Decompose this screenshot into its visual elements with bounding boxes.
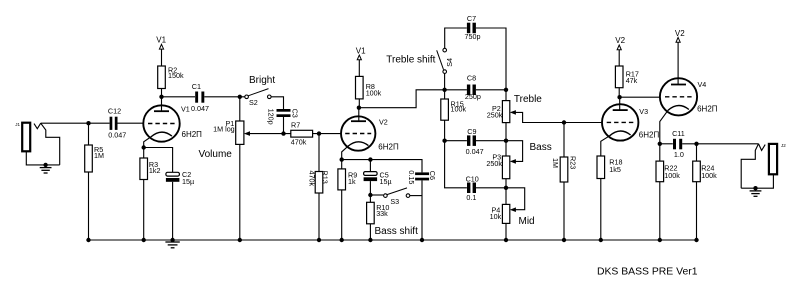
svg-text:V4: V4 [698,80,707,89]
svg-text:V3: V3 [639,107,648,116]
svg-text:Treble: Treble [514,94,542,105]
svg-text:750p: 750p [465,32,481,41]
svg-text:C12: C12 [108,107,121,116]
svg-text:DKS BASS PRE Ver1: DKS BASS PRE Ver1 [597,267,698,278]
svg-text:470k: 470k [291,138,307,147]
svg-text:V1: V1 [181,104,190,113]
svg-text:0.1: 0.1 [466,193,476,202]
svg-text:C9: C9 [467,127,476,136]
svg-text:100k: 100k [451,105,467,114]
svg-text:1k2: 1k2 [149,166,161,175]
svg-text:1k5: 1k5 [609,165,621,174]
svg-text:S2: S2 [249,98,258,107]
svg-text:C11: C11 [672,129,685,138]
svg-text:Bright: Bright [249,75,275,86]
svg-text:Bass shift: Bass shift [375,226,419,237]
svg-text:Bass: Bass [530,142,552,153]
svg-text:250k: 250k [486,159,502,168]
svg-text:C1: C1 [192,82,201,91]
svg-text:6Н2П: 6Н2П [378,143,399,152]
svg-text:120p: 120p [267,109,276,125]
svg-text:6Н2П: 6Н2П [697,104,718,113]
svg-text:100k: 100k [366,88,382,97]
svg-text:1M: 1M [551,158,560,168]
svg-text:V2: V2 [675,29,685,38]
svg-text:1k: 1k [348,177,356,186]
svg-text:6Н2П: 6Н2П [639,131,660,140]
svg-text:C7: C7 [467,14,476,23]
svg-text:15µ: 15µ [182,177,194,186]
svg-text:C3: C3 [291,109,300,118]
svg-text:0.047: 0.047 [466,147,484,156]
svg-text:C6: C6 [428,171,437,180]
svg-text:47k: 47k [626,76,638,85]
svg-text:Treble shift: Treble shift [386,54,435,65]
svg-text:1.0: 1.0 [674,150,684,159]
svg-text:Volume: Volume [199,149,233,160]
svg-text:15µ: 15µ [380,177,392,186]
svg-text:V1: V1 [356,46,366,55]
svg-text:100k: 100k [701,171,717,180]
svg-text:0.047: 0.047 [191,104,209,113]
svg-text:250k: 250k [487,110,503,119]
svg-text:R23: R23 [569,156,578,169]
svg-text:V2: V2 [379,118,388,127]
svg-text:V2: V2 [615,36,625,45]
svg-text:J1: J1 [15,122,20,127]
svg-text:R13: R13 [321,171,330,184]
svg-text:0.047: 0.047 [108,131,126,140]
svg-text:S3: S3 [390,197,399,206]
svg-text:10k: 10k [490,212,502,221]
svg-text:J2: J2 [781,143,786,148]
svg-text:1M log: 1M log [213,125,235,134]
svg-text:C10: C10 [466,175,479,184]
svg-text:Mid: Mid [519,216,535,227]
svg-text:470k: 470k [308,171,317,187]
svg-text:150k: 150k [168,71,184,80]
svg-text:1M: 1M [94,151,104,160]
svg-text:6Н2П: 6Н2П [182,130,203,139]
svg-text:C8: C8 [467,74,476,83]
svg-text:R7: R7 [291,121,300,130]
svg-text:33k: 33k [376,209,388,218]
svg-text:250p: 250p [465,92,481,101]
svg-text:0.15: 0.15 [407,170,416,184]
svg-text:S4: S4 [445,58,454,67]
svg-text:100k: 100k [664,171,680,180]
